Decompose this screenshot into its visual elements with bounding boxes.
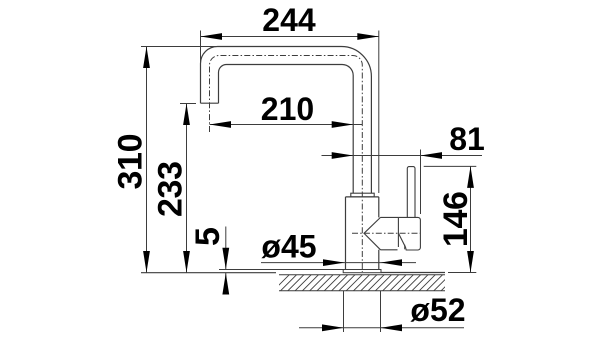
svg-text:146: 146 [437, 191, 475, 247]
svg-text:5: 5 [189, 227, 227, 246]
svg-text:ø52: ø52 [410, 292, 465, 328]
svg-text:210: 210 [261, 91, 314, 127]
svg-text:244: 244 [262, 2, 316, 38]
svg-text:233: 233 [151, 161, 189, 217]
svg-text:310: 310 [112, 134, 150, 190]
svg-text:ø45: ø45 [261, 229, 316, 265]
svg-text:81: 81 [449, 121, 485, 157]
